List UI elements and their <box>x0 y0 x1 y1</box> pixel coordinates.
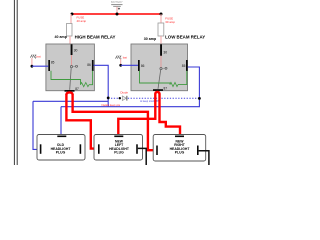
svg-text:40 amp: 40 amp <box>55 35 68 39</box>
svg-text:BATTERY: BATTERY <box>111 0 123 4</box>
svg-text:87: 87 <box>75 87 79 91</box>
svg-text:hiwatts keep you: hiwatts keep you <box>102 104 121 107</box>
svg-text:86: 86 <box>141 64 145 68</box>
svg-text:bat: bat <box>123 55 127 59</box>
svg-text:87: 87 <box>164 86 168 90</box>
svg-text:PLUG: PLUG <box>175 151 185 155</box>
svg-text:bat: bat <box>37 54 41 58</box>
svg-text:PLUG: PLUG <box>56 151 66 155</box>
svg-text:85: 85 <box>51 60 55 64</box>
svg-text:30 amp: 30 amp <box>165 20 175 24</box>
svg-text:30: 30 <box>74 49 78 53</box>
svg-text:86: 86 <box>87 63 91 67</box>
svg-text:85: 85 <box>182 64 186 68</box>
svg-text:LOW BEAM RELAY: LOW BEAM RELAY <box>165 34 205 39</box>
svg-text:HIGH BEAM RELAY: HIGH BEAM RELAY <box>75 34 116 39</box>
svg-text:PLUG: PLUG <box>114 151 124 155</box>
svg-text:40 amp: 40 amp <box>77 19 87 23</box>
svg-text:30: 30 <box>163 50 167 54</box>
svg-text:30 amp: 30 amp <box>144 37 157 41</box>
svg-text:Diode: Diode <box>120 90 128 94</box>
